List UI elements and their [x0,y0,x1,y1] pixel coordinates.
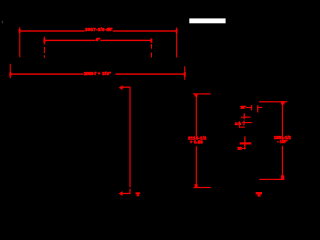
vertical dimension V1 (left) : top reference bar [193,93,211,94]
dimension line D2 (second width) : left segment [44,40,95,41]
vertical dimension V1 : bottom reference bar [194,187,211,188]
leader arrow lower (points left at x=119,y=193.4) [119,191,123,196]
vertical dimension V2 : upper line segment [282,102,283,136]
vertical dimension V1 : lower line segment [196,146,197,187]
dimension line D3 : left tick [9,72,11,76]
small dimension S3 : tick [243,121,244,126]
svg-text:- 1/4": - 1/4" [105,27,112,32]
small dimension S3 : bracket horizontal [239,127,245,128]
vertical dimension V2 : bottom tick [281,175,284,179]
small dimension S1 : left tick [251,105,252,110]
svg-text:+ 0.58: + 0.58 [190,140,203,145]
small dimension S4 : thick cross bar [240,142,252,144]
svg-text:3/8: 3/8 [235,121,242,126]
dimension line D2 : left dashed extension [44,37,45,45]
small dimension S2 : tick [244,113,245,119]
dimension line D1 : left tick [19,29,21,33]
svg-text:+ 3/8": + 3/8" [98,71,111,76]
svg-text:6": 6" [96,37,100,42]
faint gray speck top-left [2,21,3,24]
dimension line D1 : right segment [113,30,177,31]
vertical dimension V2 : bottom reference bar [259,179,284,180]
dimension line D2 : right segment [100,40,151,41]
svg-text:- 1/8": - 1/8" [277,139,287,144]
small dimension S4 : short line [242,148,246,149]
vertical dimension V1 : top tick [195,94,198,96]
small dimension S1 : right lead line [258,107,263,108]
dimension line D3 : left extension line [10,64,11,79]
vertical dimension V1 : bottom tick [195,184,198,187]
small dimension S2 : dimension line [241,117,251,118]
leader arrow upper (points left at x=119,y=87) [119,85,123,90]
small dimension S1 : left lead line [246,107,252,108]
dimension line D3 (bottom overall width) : left segment [10,73,83,74]
small dimension S3 : bracket vertical [239,121,240,128]
vertical dimension V2 : lower line segment [282,146,283,180]
vertical dimension V1 : upper line segment [196,94,197,137]
dimension line D3 : right tick [184,72,186,76]
dimension line D2 : right dashed extension [151,44,152,49]
dimension line D1 (top overall width) : left segment [20,30,85,31]
leader lower horizontal line [122,193,131,194]
white title bar [189,18,225,23]
svg-text:2057-3/8: 2057-3/8 [85,27,105,32]
dimension line D1 : right tick [176,29,178,33]
dimension line D3 : right segment [116,73,185,74]
small dimension S1 : right tick [257,105,258,110]
leader upper horizontal line [122,87,130,88]
vertical dimension V2 (right) : top reference bar [259,101,287,102]
dimension line D2 : right tick [150,39,152,43]
small dimension S1 : extension stub below right tick [257,110,258,112]
svg-text:2083-7: 2083-7 [84,71,97,76]
small dimension S3 : dimension line [242,122,252,123]
svg-text:1/2: 1/2 [237,146,242,151]
small dimension S4 : vertical line [244,136,245,149]
tiny T-mark label next to lower leader arrow [136,192,141,194]
dimension line D2 : left tick [43,39,45,43]
vertical dimension V2 : top tick [281,101,285,105]
tiny T-mark label bottom right [256,192,262,194]
dimension line D1 : left extension line [19,27,20,57]
svg-text:1/2": 1/2" [240,105,246,110]
leader vertical line [129,87,130,188]
dimension line D3 : right extension line [184,66,185,80]
dimension line D1 : right extension line [176,28,177,58]
